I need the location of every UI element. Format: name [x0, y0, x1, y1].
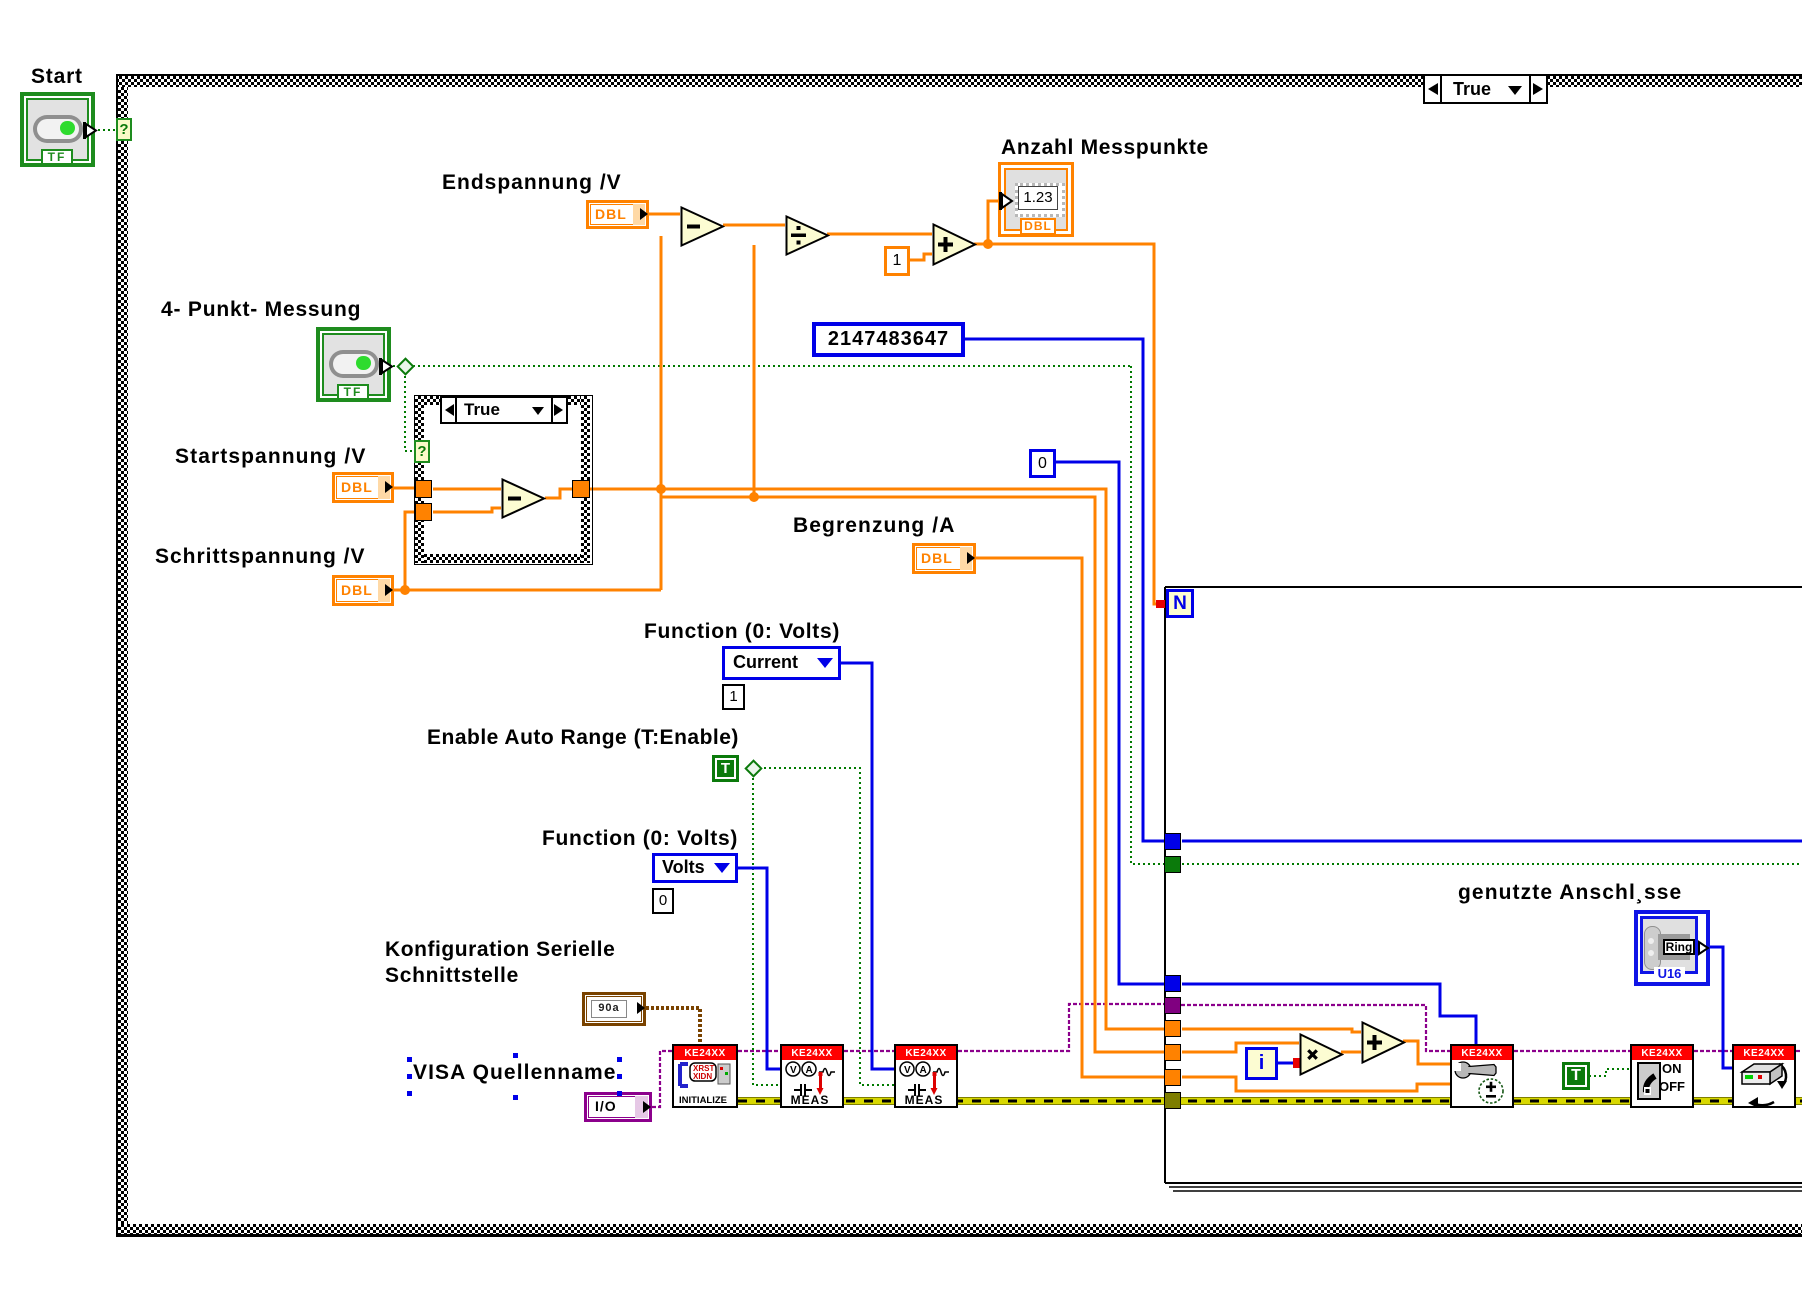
- svg-text:A: A: [806, 1065, 813, 1076]
- svg-text:A: A: [920, 1065, 927, 1076]
- svg-text:XIDN: XIDN: [693, 1072, 712, 1081]
- svg-text:V: V: [904, 1065, 911, 1076]
- svg-text:V: V: [790, 1065, 797, 1076]
